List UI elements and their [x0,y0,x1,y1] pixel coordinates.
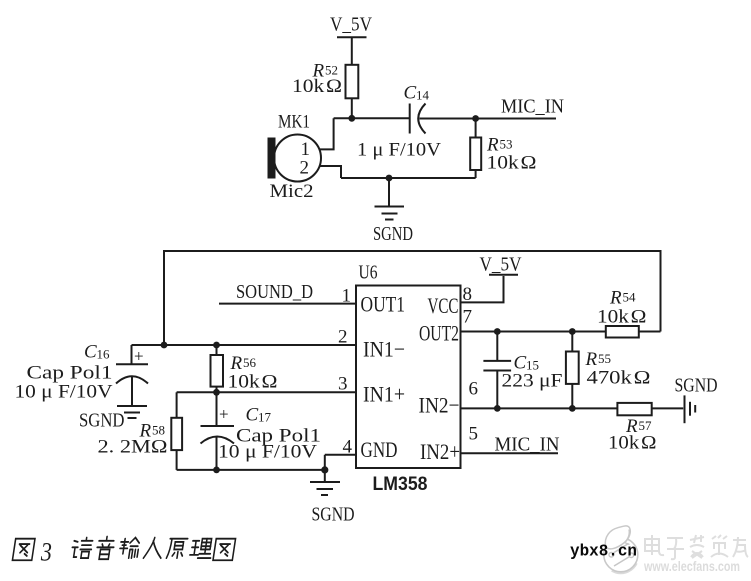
junction dot C15 top [494,328,501,335]
wire R55 top [571,332,573,352]
junction dot R56 top [213,342,220,349]
wire pin 3 (IN1+) [177,391,356,393]
junction dot R56/C17 [213,389,220,396]
svg-text:Mic2: Mic2 [270,181,314,202]
svg-text:10k Ω: 10k Ω [608,433,657,454]
wire C16 to ground [131,377,133,406]
junction dot left rail / pin2 [161,342,168,349]
wire V_5V bar to R52 [351,37,353,65]
junction dot C17 bottom [213,467,220,474]
wire mic pin 2 [320,166,342,178]
svg-text:10k Ω: 10k Ω [292,76,342,97]
svg-text:C: C [84,342,97,363]
svg-text:C: C [404,83,417,104]
wire mic pin1 to C14 (horizontal) [334,117,410,119]
svg-text:SGND: SGND [312,504,355,526]
svg-text:7: 7 [463,307,473,328]
junction dot R55 bottom [569,405,576,412]
wire C17 to bottom rail [216,437,218,470]
svg-text:10 μ F/10V: 10 μ F/10V [15,382,113,403]
svg-text:R: R [609,288,622,309]
wire pin 2 (IN1-) [132,344,357,346]
junction dot C14/R53 [472,115,479,122]
svg-text:V_5V: V_5V [480,254,522,276]
watermark 电子发烧友 strokes [645,535,748,559]
capacitor C16 straight plate [116,363,148,365]
wire pin 7 (OUT2) [461,331,606,333]
capacitor C15 plate 2 [483,370,511,372]
IC U6 box [356,286,461,469]
wire R54 to right rail [639,331,661,333]
junction dot pin4/ground [321,466,328,473]
wire R56 bottom [216,387,218,393]
svg-text:LM358: LM358 [373,473,428,495]
ground SGND (right, rotated) bars [684,395,686,423]
wire C14 to MIC_IN stub [420,118,557,120]
svg-text:U6: U6 [359,262,378,284]
ground SGND (C16) bars [117,405,147,407]
svg-text:IN1+: IN1+ [363,382,405,407]
power bar V_5V (bottom) [489,274,518,276]
wire pin 5 (IN2+, MIC_IN) [461,452,559,454]
svg-text:470k Ω: 470k Ω [587,368,651,389]
svg-text:SGND: SGND [373,223,413,245]
resistor R58 [171,418,182,450]
wire C15 top [496,332,498,361]
microphone MK1 body [274,135,321,182]
svg-text:2: 2 [300,158,310,179]
svg-text:www.elecfans.com: www.elecfans.com [643,559,740,574]
wire R55 bottom [571,384,573,409]
wire R57 to SGND [652,407,684,409]
wire node to R53 [475,119,477,138]
svg-text:OUT2: OUT2 [419,321,459,346]
microphone MK1 element bar [268,138,276,179]
svg-text:+: + [134,347,144,366]
resistor R54 [606,326,639,338]
power bar V_5V (top) [337,36,367,38]
svg-text:55: 55 [598,351,611,366]
svg-text:1 μ F/10V: 1 μ F/10V [357,140,441,161]
ground SGND (top) bars [375,206,405,208]
svg-text:10k Ω: 10k Ω [597,307,647,328]
junction dot R52/mic/C14 [348,115,355,122]
wire R56 top [216,345,218,355]
wire R58 top drop [176,392,178,418]
wire pin 4 drop to rail [324,455,326,482]
svg-text:54: 54 [623,290,637,305]
resistor R53 [470,138,481,171]
capacitor C14 straight plate [409,104,411,134]
junction dot C15 bottom [494,405,501,412]
resistor R55 [566,352,579,384]
caption char 语 [71,538,93,559]
caption char 原 [166,539,187,558]
svg-text:GND: GND [361,437,398,462]
svg-text:14: 14 [416,88,430,103]
svg-text:MK1: MK1 [278,112,310,133]
svg-text:MIC_IN: MIC_IN [501,96,564,118]
wire feedback top rail [164,251,661,345]
ground SGND (pin4) bars [310,481,340,483]
svg-text:IN1−: IN1− [363,337,405,362]
wire pin 1 (SOUND_D) [219,303,356,305]
svg-text:MIC_IN: MIC_IN [495,434,560,456]
svg-text:223 μF: 223 μF [502,371,563,392]
svg-text:IN2−: IN2− [419,393,460,418]
svg-text:10k Ω: 10k Ω [487,153,537,174]
svg-text:10 μ F/10V: 10 μ F/10V [218,442,317,463]
wire pin 6 (IN2-) [461,407,618,409]
resistor R52 [346,65,359,99]
svg-text:58: 58 [152,423,165,438]
wire mic pin2 rail to R53 (bottom horizontal) [341,177,476,179]
svg-text:V_5V: V_5V [330,14,372,36]
svg-text:+: + [219,405,229,424]
svg-text:ybx8.cn: ybx8.cn [570,543,637,562]
caption char 音 [95,537,115,560]
wire R58 bottom [176,450,178,470]
wire pin 8 to V_5V [461,276,504,302]
capacitor C15 plate 1 [483,360,511,362]
caption char 图 (2nd) [213,539,236,561]
junction dot R55 top [569,328,576,335]
svg-text:SOUND_D: SOUND_D [236,281,313,303]
capacitor C14 curved plate [418,104,425,134]
wire pin 4 (GND) [325,454,356,456]
svg-text:57: 57 [639,418,653,433]
svg-text:VCC: VCC [428,293,459,318]
wire C16 drop [131,345,133,364]
capacitor C17 straight plate [201,425,235,427]
wire C15 bottom [496,371,498,409]
wire mic pin 1 [319,118,334,149]
capacitor C16 curved plate [116,376,148,383]
svg-text:3: 3 [40,539,52,567]
svg-text:6: 6 [469,379,479,400]
svg-text:IN2+: IN2+ [420,439,460,464]
resistor R57 [617,403,651,415]
svg-text:16: 16 [97,347,111,362]
wire bottom rail R58 to GND pin [177,469,325,471]
junction dot ground tap [386,175,393,182]
caption char 入 [143,538,164,559]
wire R52 bottom to node [351,98,353,118]
watermark logo circle [604,526,638,573]
wire R53 bottom to ground rail [475,170,477,178]
svg-text:5: 5 [469,424,479,445]
svg-text:10k Ω: 10k Ω [228,372,278,393]
wire C17 top [216,392,218,426]
capacitor C17 curved plate [201,437,235,444]
svg-text:53: 53 [500,137,513,152]
caption char 输 [119,538,140,559]
svg-text:SGND: SGND [675,375,718,397]
wire to SGND symbol [388,178,390,206]
svg-text:2. 2MΩ: 2. 2MΩ [98,437,168,458]
svg-text:C: C [246,405,259,426]
svg-text:OUT1: OUT1 [361,292,406,317]
svg-text:17: 17 [258,410,272,425]
resistor R56 [211,355,224,387]
svg-text:56: 56 [243,355,257,370]
svg-text:SGND: SGND [79,410,125,432]
svg-text:Cap Pol1: Cap Pol1 [27,363,113,384]
caption char 图 (1st) [12,539,35,561]
caption char 理 [189,539,213,558]
